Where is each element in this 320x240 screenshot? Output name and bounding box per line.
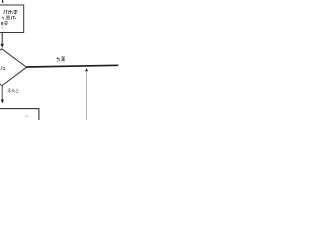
box B2 faint text marks: [25, 116, 26, 117]
wire diamond bottom vertex down: [1, 86, 3, 100]
vertical wire from bottom to arrowhead: [86, 71, 88, 120]
arrowhead into bottom box: [1, 100, 4, 104]
svg-text:.Iq: .Iq: [0, 66, 5, 72]
box B1 text faint dot line 4: [2, 27, 4, 28]
box B1 text line 1 (illegible): [4, 10, 18, 14]
arrowhead into diamond: [0, 44, 4, 48]
decision diamond D1 (clipped at left): [0, 49, 27, 86]
label (illegible three chars, light gray) below diamond: [8, 89, 19, 93]
label (illegible two chars) above horizontal wire: [57, 57, 66, 61]
wire incoming from top into box: [2, 0, 4, 3]
box B1 text line 3 (illegible): [1, 22, 7, 26]
main horizontal wire from diamond right vertex to right edge: [27, 65, 118, 67]
up arrowhead joining horizontal wire: [85, 68, 88, 71]
process box B2 (bottom, clipped at left/bottom): [0, 109, 39, 127]
wire box B1 to diamond: [1, 33, 3, 44]
box B1 text line 2 (illegible): [2, 16, 16, 19]
process box B1 (top, clipped at left): [0, 5, 24, 33]
